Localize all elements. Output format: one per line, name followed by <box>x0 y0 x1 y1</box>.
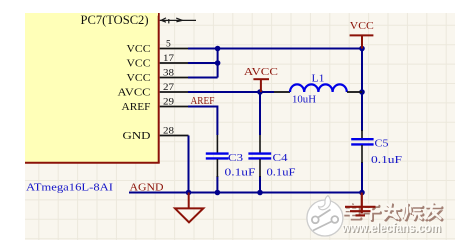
white page margins <box>0 0 455 13</box>
pin 27 stub <box>160 91 189 93</box>
junction dots <box>186 46 365 196</box>
pin 38 stub <box>160 77 189 79</box>
capacitor C4 <box>248 135 295 179</box>
svg-text:AREF: AREF <box>122 102 151 113</box>
子 <box>366 205 379 208</box>
电 <box>350 204 352 216</box>
wire AGND rail <box>129 192 362 194</box>
power port AVCC <box>244 67 278 92</box>
svg-text:AGND: AGND <box>130 182 164 193</box>
烧 <box>407 205 410 214</box>
junction AVCC/C4 <box>257 89 263 95</box>
pin PC7(TOSC2) stub with clock arrows <box>160 18 196 24</box>
watermark chinese text dian-zi-fa-shao-you (embossed strokes) <box>345 204 442 221</box>
svg-text:ATmega16L-8AI: ATmega16L-8AI <box>26 182 113 194</box>
pin 17 stub <box>160 62 189 64</box>
wire AVCC drop to C4 <box>259 92 261 135</box>
svg-text:www.elecfans.com: www.elecfans.com <box>341 221 441 235</box>
电 <box>351 205 354 217</box>
svg-text:0.1uF: 0.1uF <box>371 155 402 166</box>
发 <box>385 208 400 210</box>
svg-text:C4: C4 <box>273 153 289 164</box>
wire pin38 <box>188 77 218 79</box>
wire pin29 AREF <box>188 107 217 136</box>
junction pin5/tie <box>215 46 221 52</box>
svg-text:VCC: VCC <box>127 73 151 84</box>
友 <box>427 205 441 207</box>
junction rail/C4 <box>257 190 263 196</box>
pin 5 stub <box>160 48 189 50</box>
pin stubs (black) <box>160 49 189 136</box>
power port VCC <box>350 21 374 49</box>
capacitor C5 <box>351 130 402 166</box>
wires (navy) <box>129 49 362 193</box>
wire C5 bottom to rail <box>361 162 363 193</box>
pin 29 stub <box>160 106 189 108</box>
junction VCC stem <box>359 46 365 52</box>
IC right border <box>158 13 160 163</box>
烧 <box>406 204 408 213</box>
友 <box>428 206 442 209</box>
junction L1/VCC vertical <box>359 89 365 95</box>
svg-text:AVCC: AVCC <box>118 88 151 99</box>
junction pin17/tie <box>215 60 221 66</box>
junction rail/pin28 <box>186 190 192 196</box>
wire VCC vertical to C5 <box>361 49 363 132</box>
capacitor C3 <box>206 135 256 179</box>
wire pin27 AVCC to L1 <box>188 91 274 93</box>
svg-text:VCC: VCC <box>127 44 151 55</box>
IC body ATmega16L-8AI <box>25 13 159 163</box>
svg-text:0.1uF: 0.1uF <box>267 168 296 179</box>
pin 28 stub <box>160 135 189 137</box>
svg-text:VCC: VCC <box>127 59 151 70</box>
ground symbol (triangle) at pin28 drop <box>175 193 203 223</box>
watermark logo circle <box>307 196 343 237</box>
svg-text:L1: L1 <box>312 74 325 85</box>
wire pin5 to VCC rail <box>188 48 362 50</box>
svg-text:C3: C3 <box>228 153 243 164</box>
wire vertical tie pins 5/17/38 <box>217 49 219 78</box>
wire C4 bottom to rail <box>259 176 261 193</box>
svg-text:C5: C5 <box>375 139 389 150</box>
svg-text:AREF: AREF <box>191 96 215 107</box>
inductor L1 <box>274 74 362 106</box>
svg-text:GND: GND <box>123 131 151 142</box>
junction rail/C5 <box>359 190 365 196</box>
发 <box>386 209 401 212</box>
wire C3 bottom to rail <box>216 176 218 193</box>
wire pin28 GND drop <box>188 136 190 193</box>
svg-text:0.1uF: 0.1uF <box>225 168 256 179</box>
svg-text:AVCC: AVCC <box>244 67 278 78</box>
svg-text:VCC: VCC <box>350 21 374 32</box>
svg-text:10uH: 10uH <box>292 95 316 106</box>
子 <box>365 204 378 206</box>
IC bottom border <box>25 162 160 164</box>
junction rail/C3 <box>215 190 221 196</box>
earth ground at C5 / rail end <box>345 193 376 216</box>
wire pin17 <box>188 62 218 64</box>
